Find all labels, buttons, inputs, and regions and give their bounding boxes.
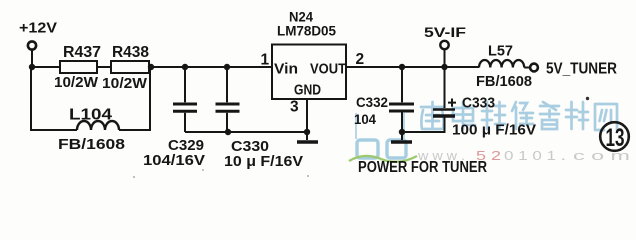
svg-text:10/2W: 10/2W bbox=[102, 76, 147, 92]
inductor L104 bbox=[31, 67, 150, 153]
svg-text:+12V: +12V bbox=[19, 20, 57, 37]
svg-text:1: 1 bbox=[261, 52, 270, 69]
svg-text:FB/1608: FB/1608 bbox=[58, 136, 125, 153]
svg-text:C333: C333 bbox=[462, 96, 495, 112]
svg-text:FB/1608: FB/1608 bbox=[476, 74, 532, 90]
terminal 5V_TUNER bbox=[530, 61, 617, 78]
ground symbol pin 3 bbox=[297, 140, 318, 144]
wire output rail pin 2 to L57 bbox=[346, 66, 479, 68]
terminal 5V-IF bbox=[424, 24, 467, 49]
node junction C332 bottom bbox=[399, 129, 405, 135]
svg-text:0 1 0 1: 0 1 0 1 bbox=[504, 148, 556, 163]
svg-text:R437: R437 bbox=[63, 44, 101, 61]
watermark logo boxes bbox=[349, 113, 417, 162]
svg-text:5V-IF: 5V-IF bbox=[424, 24, 467, 40]
node junction 5V-IF rail bbox=[441, 64, 447, 70]
node junction C329 top bbox=[182, 64, 188, 70]
wire pin 3 bbox=[306, 99, 308, 140]
capacitor C329 bbox=[143, 67, 205, 169]
wire ground rail bbox=[185, 131, 307, 133]
svg-text:100 μ F/16V: 100 μ F/16V bbox=[452, 122, 536, 139]
node junction +12V rail bbox=[29, 64, 35, 70]
regulator N24 LM78D05 bbox=[272, 9, 346, 100]
resistor R437 bbox=[54, 44, 101, 91]
node junction L104 right bbox=[148, 64, 154, 70]
svg-text:5V_TUNER: 5V_TUNER bbox=[546, 61, 617, 78]
capacitor C330 bbox=[216, 67, 304, 170]
svg-text:10 μ F/16V: 10 μ F/16V bbox=[224, 154, 303, 170]
node junction pin3 / ground rail bbox=[304, 129, 310, 135]
wire +12V stub bbox=[31, 50, 33, 68]
capacitor C333 bbox=[402, 67, 536, 139]
wire main rail to R437 bbox=[31, 66, 60, 68]
svg-text:POWER FOR TUNER: POWER FOR TUNER bbox=[358, 159, 487, 176]
resistor R438 bbox=[102, 44, 149, 92]
specks bbox=[586, 97, 589, 100]
svg-text:R438: R438 bbox=[112, 44, 149, 61]
page number 13 circled bbox=[600, 122, 629, 152]
svg-text:13: 13 bbox=[606, 124, 625, 152]
svg-text:C330: C330 bbox=[231, 139, 269, 155]
svg-text:L104: L104 bbox=[69, 107, 112, 124]
terminal +12V bbox=[19, 20, 57, 50]
wire rail R438 to regulator pin 1 bbox=[149, 66, 272, 68]
svg-text:2: 2 bbox=[356, 51, 365, 68]
inductor L57 bbox=[476, 43, 532, 91]
svg-text:LM78D05: LM78D05 bbox=[277, 23, 336, 39]
svg-text:104/16V: 104/16V bbox=[143, 153, 205, 169]
svg-text:Vin: Vin bbox=[274, 62, 298, 78]
svg-text:10/2W: 10/2W bbox=[54, 75, 98, 91]
svg-text:VOUT: VOUT bbox=[310, 62, 346, 78]
node junction C330 top bbox=[224, 64, 230, 70]
capacitor C332 bbox=[354, 67, 414, 140]
wire between R437 and R438 bbox=[97, 66, 111, 68]
svg-text:GND: GND bbox=[294, 83, 321, 99]
node junction C332 top bbox=[399, 64, 405, 70]
wire 5V-IF stub bbox=[444, 49, 446, 67]
svg-text:L57: L57 bbox=[488, 43, 513, 60]
watermark (decorative, drawn first) bbox=[421, 102, 617, 130]
watermark url bbox=[417, 148, 630, 163]
ground symbol C332 bbox=[391, 140, 412, 144]
svg-text:C329: C329 bbox=[168, 138, 204, 154]
node junction C330 bottom bbox=[225, 129, 231, 135]
svg-text:C332: C332 bbox=[356, 94, 388, 110]
svg-text:3: 3 bbox=[290, 99, 299, 116]
svg-text:104: 104 bbox=[354, 111, 376, 127]
